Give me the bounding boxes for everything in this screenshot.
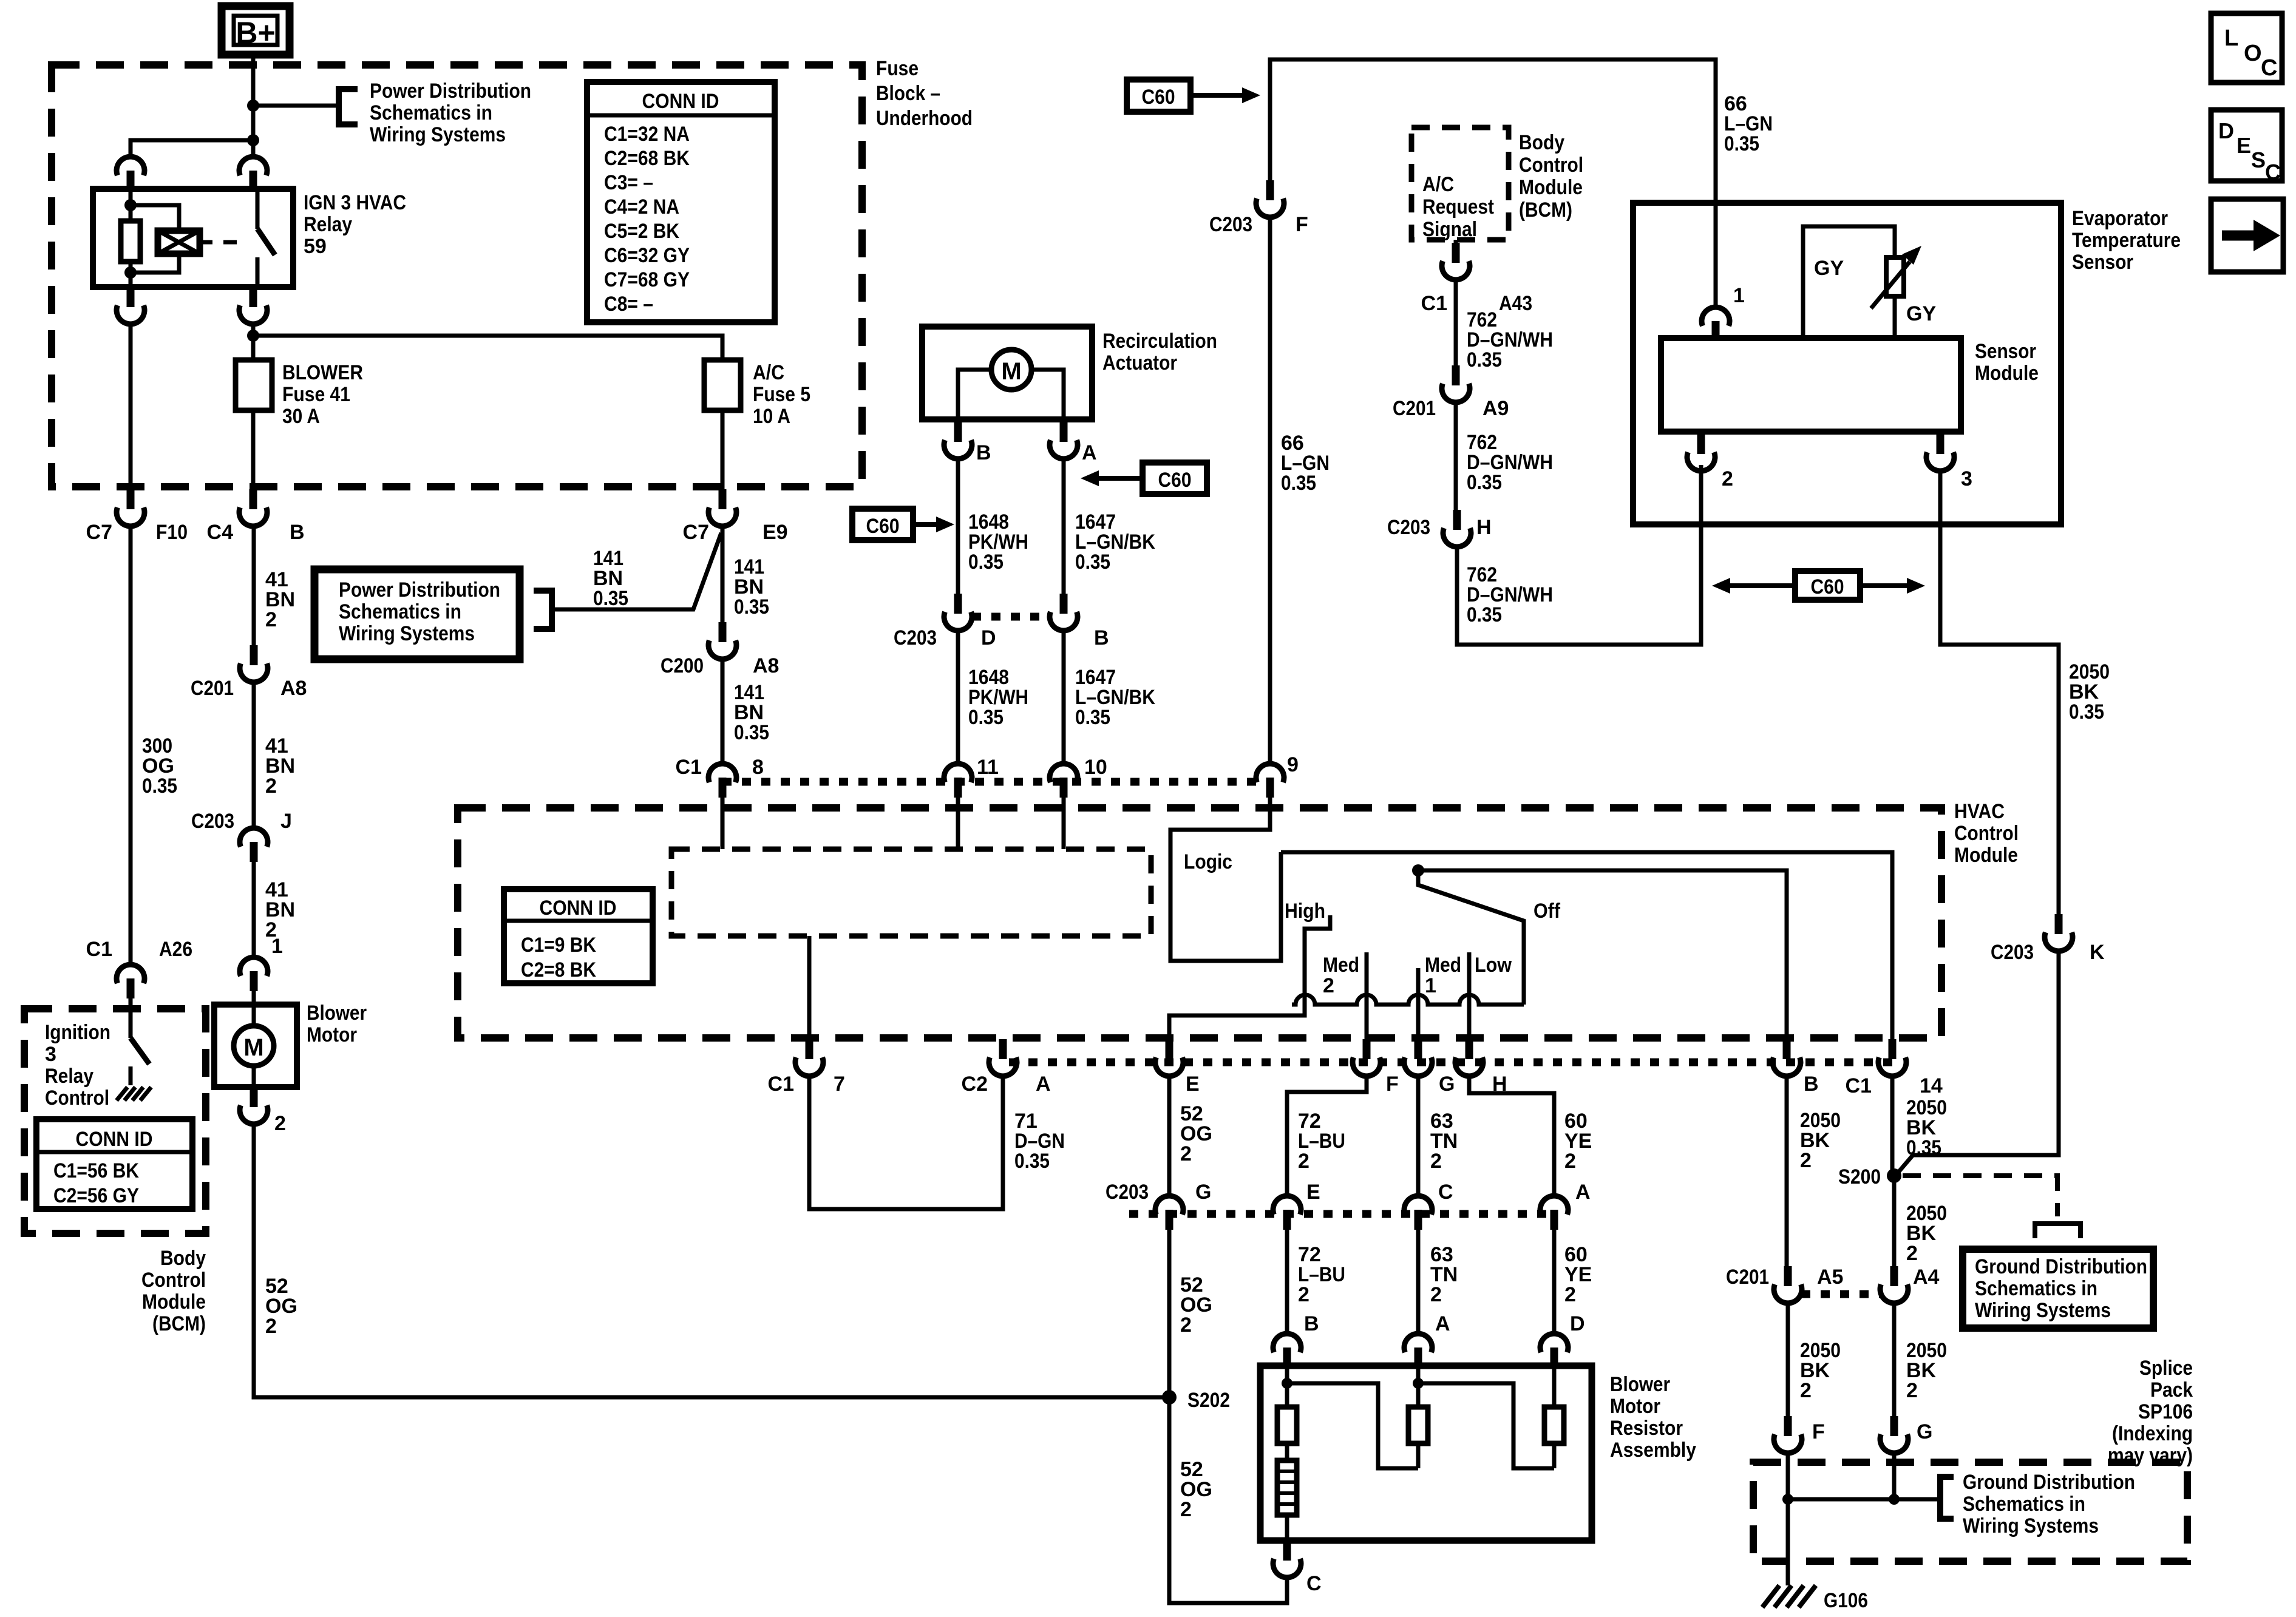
connector: blower motor pin 2 [240,1087,268,1124]
label: 52 OG 2 (E drop) [1180,1102,1212,1165]
wire 1648 PK/WH (seg2) [956,629,960,763]
wire branch left to relay coil pin [131,140,253,156]
label: 60 YE 2 (2) [1564,1243,1592,1306]
logic dashed box [671,849,1151,936]
label: BLOWER Fuse 41 30 A [282,361,363,428]
wire 2050 BK to S200 [1895,949,2059,1176]
svg-text:C201: C201 [1726,1266,1769,1289]
svg-text:3: 3 [1961,467,1972,490]
wire 52 OG 2 motor return [254,1122,1169,1397]
svg-text:E: E [1306,1181,1320,1204]
svg-text:(BCM): (BCM) [152,1312,206,1335]
label: Logic [1184,850,1232,873]
label: HVAC Control Module [1954,800,2019,867]
node: branch to relay coil [247,134,259,146]
svg-text:Evaporator: Evaporator [2072,207,2168,230]
blower motor box [214,1005,297,1087]
svg-text:C: C [2261,55,2277,81]
svg-text:C1: C1 [768,1073,794,1096]
label: Med 1 [1425,954,1461,997]
BCM relay control switch [131,1009,149,1085]
switch wiper arm to Off [1418,870,1524,1005]
connector: actuator pin A [1050,422,1078,459]
label: Low [1475,954,1512,977]
recirculation actuator box [922,327,1092,419]
svg-text:0.35: 0.35 [1724,132,1759,155]
svg-text:A/C: A/C [753,361,784,384]
labels C7 F10 [86,521,188,544]
wire sensor pin 3 to 2050 BK [1940,469,2059,914]
svg-text:2: 2 [1722,467,1733,490]
svg-text:2: 2 [1180,1142,1192,1165]
wire 2050 BK A4 to G [1892,1301,1897,1416]
dotted mating row: HVAC bottom connectors [1009,1059,1892,1066]
label: 2050 BK 0.35 [2069,660,2110,724]
label: 1648 PK/WH 0.35 (1) [968,510,1028,574]
connector C203/D [944,594,972,631]
svg-text:Schematics in: Schematics in [1963,1493,2085,1516]
A/C Request Signal dashed box [1411,127,1509,240]
label: Blower Motor [307,1002,367,1046]
bracket: Power Distribution Schematics reference [339,89,358,124]
label E [1186,1073,1200,1096]
dotted mating line C201 [1801,1290,1881,1298]
svg-text:H: H [1476,516,1492,539]
wire 60 YE 2 to resistor D [1552,1230,1557,1333]
connector C203/J [240,828,268,862]
svg-text:2: 2 [1430,1150,1442,1173]
svg-text:Blower: Blower [1610,1373,1670,1396]
label: A/C Fuse 5 10 A [753,361,810,428]
svg-text:2: 2 [1180,1498,1192,1521]
wire relay 87 to blower fuse [251,322,256,360]
svg-text:C5=2 BK: C5=2 BK [604,220,679,243]
connector C4/B fuse block exit [239,489,267,526]
svg-text:2: 2 [265,608,277,631]
svg-text:Med: Med [1323,954,1359,977]
svg-text:2: 2 [1298,1150,1309,1173]
svg-text:Relay: Relay [304,213,352,236]
svg-text:Relay: Relay [45,1065,93,1088]
fuse BLOWER Fuse 41 30 A [236,360,272,410]
svg-text:0.35: 0.35 [1467,348,1502,371]
svg-text:Schematics in: Schematics in [339,600,461,623]
connector F (splice pack) [1774,1416,1802,1453]
svg-text:C60: C60 [866,515,900,538]
blower motor M symbol [234,1005,274,1087]
C60 connector box top (arrow right) [1127,80,1260,112]
label: 41 BN 2 (3) [265,878,295,941]
svg-text:B: B [1804,1073,1819,1096]
label: Blower Motor Resistor Assembly [1610,1373,1696,1462]
label: 2050 BK 2 (B drop) [1800,1109,1841,1172]
wire 52 OG 2 pin E to C203 G [1167,1074,1172,1195]
svg-text:A: A [1082,441,1097,464]
svg-text:C7: C7 [86,521,112,544]
switch wiper node [1412,864,1424,876]
svg-text:A/C: A/C [1422,173,1454,196]
relay coil resistor [121,189,140,287]
label: 66 L-GN 0.35 (top right) [1724,92,1773,155]
dashed link S200 to splice pack symbol [1903,1176,2057,1216]
svg-text:C2=56 GY: C2=56 GY [53,1184,139,1207]
Power Distribution Schematics box [314,569,520,659]
svg-text:C2=8 BK: C2=8 BK [521,958,596,981]
wire to G106 ground [1786,1499,1790,1585]
connector G (splice pack) [1880,1416,1908,1453]
connector C203/G [1155,1196,1183,1230]
svg-text:0.35: 0.35 [142,775,177,798]
svg-text:2: 2 [274,1112,286,1135]
connector: sensor pin 2 [1687,432,1715,471]
CONN ID table (fuse block) [587,82,775,322]
svg-text:B: B [976,441,991,464]
svg-text:M: M [243,1034,263,1061]
svg-text:0.35: 0.35 [1467,471,1502,494]
labels C203 H [1387,516,1492,539]
svg-text:Request: Request [1422,195,1494,219]
svg-text:10 A: 10 A [753,405,790,428]
svg-text:Control: Control [1519,154,1583,177]
resistor R1 (B leg) [1277,1368,1297,1460]
svg-text:D: D [2218,118,2234,143]
svg-text:0.35: 0.35 [734,721,769,744]
Ground Distribution box (upper) [1963,1249,2153,1328]
labels B A actuator pins [976,441,1097,464]
switch line B to pin B [1418,870,1787,1039]
label: 41 BN 2 (2) [265,734,295,798]
svg-text:Schematics in: Schematics in [1975,1277,2097,1300]
connector: resistor pin D [1540,1334,1568,1368]
label: 2050 BK 2 (A4-G) [1906,1339,1947,1402]
label: 762 D-GN/WH 0.35 (2) [1467,431,1553,494]
thermal limiter (striped) [1277,1460,1297,1541]
wire 762 D-GN/WH (seg2) [1454,401,1458,510]
connector C200/A8 [708,622,736,659]
svg-text:C4: C4 [207,521,234,544]
label: A/C Request Signal [1422,173,1494,241]
svg-text:(Indexing: (Indexing [2112,1422,2193,1445]
svg-text:Ground Distribution: Ground Distribution [1963,1471,2135,1494]
wire B+ down to relay [251,55,256,156]
connector C7/F10 fuse block exit [117,489,144,526]
labels C201 A8 [191,677,307,700]
svg-text:Control: Control [1954,822,2019,845]
svg-text:C: C [1438,1181,1453,1204]
svg-text:C1: C1 [86,938,112,961]
svg-text:Fuse 41: Fuse 41 [282,383,350,406]
svg-text:C7=68 GY: C7=68 GY [604,268,690,291]
label: 1648 PK/WH 0.35 (2) [968,666,1028,729]
svg-text:Assembly: Assembly [1610,1439,1696,1462]
label: 141 BN 0.35 (left) [593,547,628,610]
svg-text:CONN ID: CONN ID [76,1128,153,1151]
svg-text:Wiring Systems: Wiring Systems [339,622,475,645]
wire 2050 BK A5 to F [1786,1301,1790,1416]
labels C4 B [207,521,305,544]
svg-text:A: A [1435,1312,1450,1335]
C60 connector box (arrow right) [852,509,954,540]
label: High [1285,900,1325,923]
svg-text:Actuator: Actuator [1102,351,1177,375]
svg-text:M: M [1001,358,1021,385]
svg-text:Blower: Blower [307,1002,367,1025]
svg-text:0.35: 0.35 [1075,551,1110,574]
svg-text:0.35: 0.35 [1014,1150,1050,1173]
label F (splice pack) [1812,1420,1825,1443]
svg-text:A8: A8 [280,677,307,700]
connector: relay pin 85 bottom [117,287,144,324]
svg-text:E9: E9 [763,521,788,544]
svg-text:G: G [1439,1073,1455,1096]
svg-text:0.35: 0.35 [968,551,1004,574]
connector C203/F [1256,180,1284,217]
connector C201/A4 [1880,1266,1908,1303]
svg-text:C2: C2 [962,1073,988,1096]
wire 60 YE 2 pin H jog to C203 A [1469,1074,1554,1195]
switch bus with jump-overs [1292,995,1524,1005]
labels C201 A9 [1393,397,1509,420]
label A (resistor) [1435,1312,1450,1335]
thermistor sub-box with GY leads [1803,226,1895,338]
svg-text:C203: C203 [1209,213,1252,236]
DESC legend box [2211,110,2282,185]
wire 41 BN 2 (seg 3) [252,862,256,957]
connector C203/H [1443,510,1471,547]
svg-text:0.35: 0.35 [1467,603,1502,626]
svg-text:2: 2 [1298,1283,1309,1306]
svg-text:BLOWER: BLOWER [282,361,363,384]
labels C201 A5 A4 [1726,1266,1940,1289]
wire 71 D-GN loop pin7 to pin A [809,1074,1003,1209]
svg-text:8: 8 [752,756,764,779]
svg-text:Control: Control [141,1269,206,1292]
svg-text:C: C [2265,160,2281,185]
LOC legend box [2211,13,2282,83]
label: Med 2 [1323,954,1359,997]
connector F [1353,1039,1381,1076]
label: 762 D-GN/WH 0.35 (1) [1467,308,1553,371]
label: 1647 L-GN/BK 0.35 (1) [1075,510,1155,574]
svg-text:C1: C1 [1846,1074,1872,1097]
wire 1648 PK/WH (seg1) [956,457,960,594]
svg-text:S202: S202 [1187,1389,1230,1412]
wire 2050 BK S200 to A4 [1892,1176,1897,1266]
connector C201/A5 [1774,1266,1802,1303]
wire 52 OG 2 S202 to resistor pin C [1169,1397,1287,1603]
connector C1/A43 [1442,240,1470,280]
svg-text:2: 2 [265,1315,277,1338]
label G (splice pack) [1917,1420,1932,1443]
relay switch contact [257,189,275,287]
label: Power Distribution Schematics in Wiring Systems (top) [370,80,531,146]
label: 52 OG 2 (below S202) [1180,1458,1212,1521]
connector 10 [1050,764,1078,798]
svg-text:1: 1 [1733,284,1745,307]
connector 11 [944,764,972,798]
labels C203 K [1991,941,2105,964]
label: 762 D-GN/WH 0.35 (3) [1467,563,1553,626]
svg-text:CONN ID: CONN ID [642,90,719,113]
resistor R3 (D leg) [1544,1368,1564,1468]
svg-text:Module: Module [1954,844,2018,867]
label: 60 YE 2 (1) [1564,1110,1592,1173]
recirculation actuator motor M [958,350,1064,419]
label: 1647 L-GN/BK 0.35 (2) [1075,666,1155,729]
splice pack dashed box [1753,1462,2187,1561]
svg-text:K: K [2090,941,2105,964]
svg-text:A: A [1036,1073,1051,1096]
svg-text:L: L [2224,25,2238,51]
svg-text:CONN ID: CONN ID [540,897,617,920]
connector: resistor pin B [1273,1334,1301,1368]
svg-text:Signal: Signal [1422,218,1477,241]
label: 141 BN 0.35 (right) [734,555,769,619]
svg-text:7: 7 [834,1073,845,1096]
label C (C203) [1438,1181,1453,1204]
svg-text:A9: A9 [1483,397,1509,420]
label: 72 L-BU 2 (1) [1298,1110,1345,1173]
wire 72 L-BU 2 pin F jog to C203 E [1287,1074,1367,1195]
bracket to Power Distribution box [534,591,552,629]
wire relay 85 down to fuse block exit [129,322,133,489]
label: G106 [1824,1589,1868,1612]
label: motor pin 2 [274,1112,286,1135]
battery feed B+ terminal [222,6,290,55]
HVAC control module dashed box [458,808,1941,1038]
thermistor (variable resistor) [1871,246,1921,308]
label: 63 TN 2 (2) [1430,1243,1458,1306]
label: Ignition 3 Relay Control [45,1021,110,1110]
label G [1439,1073,1455,1096]
CONN ID table (HVAC) [504,889,653,983]
svg-text:GY: GY [1814,257,1844,280]
label 9 [1287,753,1299,776]
svg-text:Underhood: Underhood [876,107,973,130]
wire 52 OG 2 to S202 [1167,1230,1172,1397]
svg-text:14: 14 [1920,1074,1943,1097]
svg-text:E: E [1186,1073,1200,1096]
svg-text:Fuse 5: Fuse 5 [753,383,810,406]
svg-text:10: 10 [1084,756,1107,779]
svg-text:C203: C203 [1106,1181,1149,1204]
labels C203 F [1209,213,1308,236]
svg-text:2: 2 [1800,1379,1812,1402]
svg-text:Body: Body [160,1247,206,1270]
svg-text:F: F [1296,213,1308,236]
svg-text:D: D [981,626,996,649]
svg-text:Wiring Systems: Wiring Systems [370,123,506,146]
label: 72 L-BU 2 (2) [1298,1243,1345,1306]
svg-text:S200: S200 [1838,1165,1881,1188]
svg-text:C60: C60 [1142,86,1175,109]
svg-text:0.35: 0.35 [593,587,628,610]
wire 300 OG 0.35 down to BCM [129,524,133,964]
svg-text:Sensor: Sensor [2072,251,2133,274]
wire 141 BN to HVAC C1/8 [721,657,725,763]
connector: relay pin 86 (coil) top [117,157,144,191]
svg-text:C60: C60 [1158,469,1192,492]
connector: blower motor pin 1 [240,957,268,1005]
svg-text:1: 1 [271,935,283,958]
wire 1647 L-GN/BK (seg2) [1062,629,1066,763]
svg-text:F: F [1812,1420,1825,1443]
forward arrow legend box [2211,199,2283,272]
svg-text:A26: A26 [159,938,192,961]
svg-text:F: F [1386,1073,1399,1096]
svg-text:High: High [1285,900,1325,923]
svg-text:Motor: Motor [307,1023,357,1046]
relay winding to switch dashed link [200,240,243,245]
svg-text:C1: C1 [676,756,702,779]
svg-text:2: 2 [1800,1149,1812,1172]
wire to A/C fuse 5 [253,336,722,360]
svg-text:30 A: 30 A [282,405,320,428]
connector C7/E9 fuse block exit [708,489,736,526]
label E (C203) [1306,1181,1320,1204]
svg-text:1: 1 [1425,974,1436,997]
connector C1/8 [708,764,736,798]
svg-text:0.35: 0.35 [1075,706,1110,729]
svg-text:C8= –: C8= – [604,293,653,316]
BCM dashed box (Ignition 3 Relay Control) [24,1009,206,1233]
svg-text:A: A [1575,1181,1591,1204]
relay winding (box with X) [131,205,200,273]
CONN ID table (BCM) [36,1119,192,1209]
svg-text:G: G [1195,1181,1211,1204]
fuse block underhood dashed box [52,65,862,487]
svg-text:G106: G106 [1824,1589,1868,1612]
label: Sensor Module [1975,340,2039,385]
label: Ground Distribution Schematics (lower) [1963,1471,2135,1537]
label: S200 [1838,1165,1881,1188]
splice S202 [1162,1390,1177,1405]
connector: sensor pin 1 [1702,307,1730,341]
svg-text:Ignition: Ignition [45,1021,110,1044]
connector C203/K [2045,914,2073,951]
wire 141 BN diagonal from E9 [552,533,721,609]
labels C7 E9 [683,521,788,544]
label: 2050 BK 2 (A5-F) [1800,1339,1841,1402]
svg-text:A5: A5 [1817,1266,1843,1289]
wires F,G to ground bus [1788,1451,1894,1499]
labels C1 A43 [1421,292,1532,315]
svg-text:Block –: Block – [876,82,940,105]
wire A/C fuse down [721,410,725,489]
label: Body Control Module (BCM) [141,1247,206,1335]
svg-text:Motor: Motor [1610,1395,1660,1418]
labels C1 A26 [86,938,192,961]
blower motor resistor assembly box [1260,1366,1592,1541]
wire blower fuse down [251,410,256,489]
svg-text:Schematics in: Schematics in [370,101,492,124]
wire 41 BN 2 (seg 2) [252,680,256,827]
svg-text:E: E [2237,133,2251,158]
svg-text:Module: Module [142,1290,206,1314]
label: 63 TN 2 (1) [1430,1110,1458,1173]
svg-text:C201: C201 [1393,397,1436,420]
wires 8,11,10 into logic box [722,798,1064,849]
svg-text:J: J [280,810,292,833]
label: 52 OG 2 (S202 above) [1180,1273,1212,1337]
svg-text:0.35: 0.35 [1906,1136,1941,1159]
wire from pin 9 to switch common [1170,798,1281,961]
label B (resistor) [1304,1312,1319,1335]
svg-text:(BCM): (BCM) [1519,198,1572,222]
svg-text:A4: A4 [1913,1266,1940,1289]
svg-text:2: 2 [1564,1150,1576,1173]
wire 762 D-GN/WH (seg1) [1454,278,1458,365]
